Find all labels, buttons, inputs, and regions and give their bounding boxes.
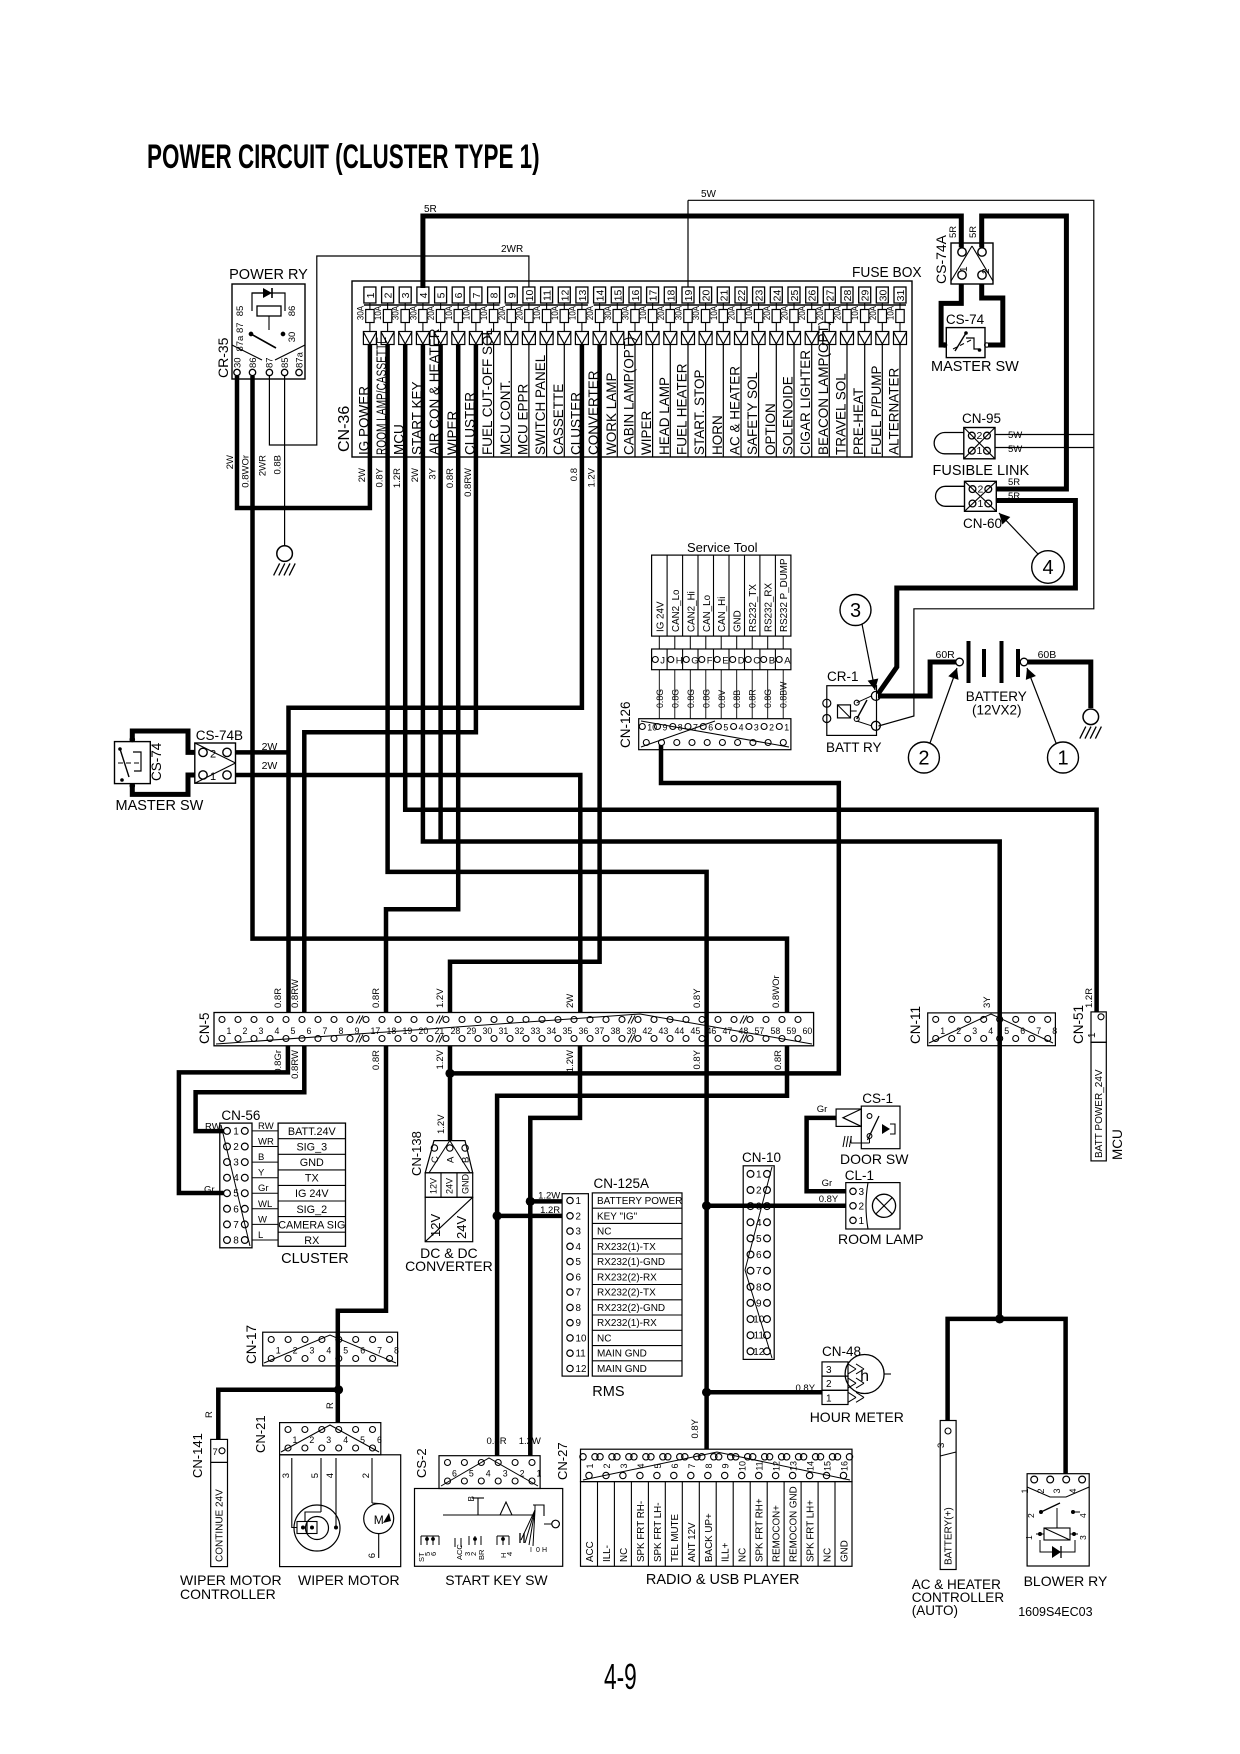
svg-text:BATT.24V: BATT.24V [288,1126,337,1138]
svg-text:10A: 10A [743,306,754,320]
svg-text:h: h [860,1368,869,1385]
svg-text:H: H [676,656,683,667]
svg-text:MAIN GND: MAIN GND [597,1364,647,1375]
svg-text:CS-1: CS-1 [862,1091,893,1106]
svg-text:RX232(1)-GND: RX232(1)-GND [597,1257,665,1268]
svg-text:3: 3 [936,1443,947,1448]
svg-text:1: 1 [940,1026,945,1036]
svg-text:NC: NC [597,1333,611,1344]
svg-text:4: 4 [505,1552,514,1556]
svg-text:2W: 2W [357,468,368,482]
svg-text:30A: 30A [690,306,701,320]
svg-text:13: 13 [789,1461,799,1471]
svg-text:9: 9 [721,1463,731,1468]
svg-text:8: 8 [704,1463,714,1468]
svg-text:4: 4 [1078,1513,1088,1518]
svg-text:1: 1 [585,1463,595,1468]
svg-text:ALTERNATER: ALTERNATER [887,367,902,455]
svg-text:7: 7 [756,1266,762,1277]
svg-text:BACK UP+: BACK UP+ [704,1513,715,1562]
svg-text:KEY "IG": KEY "IG" [597,1211,637,1222]
svg-text:TRAVEL SOL: TRAVEL SOL [834,373,849,455]
svg-text:1: 1 [210,771,216,783]
svg-text:0.8BW: 0.8BW [779,681,789,708]
svg-text:1.2V: 1.2V [436,1114,447,1134]
svg-text:42: 42 [643,1026,653,1036]
svg-text:0.8R: 0.8R [445,468,456,488]
svg-text:9: 9 [663,723,668,733]
svg-text:17: 17 [371,1026,381,1036]
svg-text:2: 2 [981,268,992,274]
svg-text:86: 86 [287,306,298,317]
svg-text:30A: 30A [355,306,366,320]
svg-text:87: 87 [265,357,276,368]
svg-text:0.8WOr: 0.8WOr [241,455,252,488]
svg-text:34: 34 [547,1026,557,1036]
svg-text:CN-5: CN-5 [197,1012,212,1044]
svg-text:RX232(1)-RX: RX232(1)-RX [597,1318,657,1329]
svg-text:CAMERA SIG: CAMERA SIG [278,1219,345,1231]
svg-text:1: 1 [784,723,789,733]
svg-text:2W: 2W [225,455,236,469]
svg-text:11: 11 [576,1349,586,1360]
svg-text:0.8Y: 0.8Y [692,988,703,1008]
svg-text:0.8: 0.8 [569,468,580,481]
svg-text:NC: NC [823,1548,834,1562]
svg-text:20A: 20A [779,306,790,320]
svg-text:3: 3 [310,1346,315,1356]
svg-text:RX232(2)-TX: RX232(2)-TX [597,1287,656,1298]
svg-text:5R: 5R [1008,477,1020,488]
svg-text:14: 14 [595,290,607,302]
svg-text:2WR: 2WR [257,455,268,476]
svg-text:3: 3 [972,1026,977,1036]
svg-text:CN-95: CN-95 [962,411,1001,426]
svg-text:33: 33 [531,1026,541,1036]
svg-text:21: 21 [718,290,730,302]
svg-text:3: 3 [326,1435,331,1445]
svg-text:HOUR METER: HOUR METER [810,1409,904,1425]
svg-text:CL-1: CL-1 [845,1168,874,1183]
svg-text:1: 1 [576,1196,581,1207]
svg-text:MCU: MCU [1110,1129,1125,1160]
svg-text:SOLENOIDE: SOLENOIDE [781,376,796,455]
svg-text:Service Tool: Service Tool [687,540,758,555]
svg-text:15: 15 [612,290,624,302]
svg-text:SPK FRT LH+: SPK FRT LH+ [806,1500,817,1562]
svg-text:4: 4 [275,1026,280,1036]
svg-text:Gr: Gr [822,1178,833,1189]
svg-text:10: 10 [524,290,536,302]
svg-text:0.8G: 0.8G [670,689,680,708]
svg-text:2: 2 [233,1142,239,1153]
svg-text:1: 1 [276,1346,281,1356]
svg-text:10A: 10A [531,306,542,320]
svg-text:6: 6 [233,1204,239,1215]
svg-text:J: J [660,656,665,667]
svg-text:CONVERTER: CONVERTER [405,1258,493,1274]
svg-text:5W: 5W [701,189,717,200]
svg-text:RX232(2)-GND: RX232(2)-GND [597,1303,665,1314]
svg-text:4: 4 [343,1435,348,1445]
svg-text:6: 6 [708,723,713,733]
svg-text:1: 1 [1087,1032,1098,1038]
svg-text:2: 2 [1026,1513,1036,1518]
svg-text:0: 0 [536,1547,540,1554]
svg-text:CLUSTER: CLUSTER [281,1251,349,1267]
svg-text:GND: GND [461,1174,471,1195]
svg-text:NC: NC [738,1548,749,1562]
svg-text:2W: 2W [565,994,576,1008]
svg-text:8: 8 [576,1303,582,1314]
svg-text:5: 5 [469,1469,474,1479]
svg-text:12: 12 [559,290,571,302]
svg-text:DOOR SW: DOOR SW [840,1151,909,1167]
svg-text:CIGAR LIGHTER: CIGAR LIGHTER [798,350,813,455]
svg-text:5: 5 [343,1346,348,1356]
svg-text:10A: 10A [478,306,489,320]
svg-text:0.8V: 0.8V [717,690,727,708]
svg-text:E: E [722,656,728,667]
svg-text:5: 5 [576,1257,582,1268]
svg-text:1.2R: 1.2R [1084,988,1095,1008]
svg-text:CS-2: CS-2 [414,1448,429,1478]
svg-text:B: B [467,1496,476,1501]
svg-text:START KEY SW: START KEY SW [445,1572,548,1588]
svg-text:6: 6 [307,1026,312,1036]
svg-text:ROOM LAMP: ROOM LAMP [838,1231,924,1247]
svg-text:11: 11 [755,1461,765,1470]
svg-text:CS-74A: CS-74A [933,234,949,284]
svg-text:10: 10 [576,1333,587,1344]
svg-text:2W: 2W [410,468,421,482]
svg-text:ACC: ACC [585,1541,596,1562]
svg-text:1.2V: 1.2V [435,1049,446,1069]
svg-text:58: 58 [771,1026,781,1036]
svg-text:22: 22 [736,290,748,302]
svg-text:BATTERY POWER: BATTERY POWER [597,1196,682,1207]
svg-text:32: 32 [515,1026,525,1036]
svg-text:FUEL P/PUMP: FUEL P/PUMP [869,365,884,455]
svg-text:1: 1 [1020,1488,1030,1493]
svg-text:38: 38 [611,1026,621,1036]
svg-text:30: 30 [287,332,298,343]
svg-text:WL: WL [258,1199,272,1210]
svg-text:10A: 10A [885,306,896,320]
svg-text:20A: 20A [761,306,772,320]
svg-text:OPTION: OPTION [763,403,778,455]
svg-text:Gr: Gr [258,1183,269,1194]
svg-text:B: B [258,1152,264,1163]
svg-text:37: 37 [595,1026,605,1036]
svg-text:10A: 10A [637,306,648,320]
svg-text:60B: 60B [1038,649,1057,661]
svg-text:2: 2 [826,1379,832,1390]
svg-text:CN-36: CN-36 [336,406,353,452]
svg-text:20A: 20A [726,306,737,320]
svg-text:2: 2 [210,749,216,761]
svg-text:Gr: Gr [817,1104,828,1115]
svg-text:18: 18 [665,290,677,302]
svg-text:10A: 10A [372,306,383,320]
svg-text:1: 1 [1024,1535,1034,1540]
svg-text:1: 1 [859,1216,865,1227]
svg-text:SIG_2: SIG_2 [296,1204,327,1216]
svg-text:30A: 30A [408,306,419,320]
svg-text:Y: Y [258,1168,265,1179]
svg-text:CN-126: CN-126 [618,701,633,748]
svg-text:3: 3 [826,1365,832,1376]
svg-text:3Y: 3Y [428,467,439,479]
svg-text:3: 3 [859,1187,865,1198]
svg-text:20A: 20A [496,306,507,320]
svg-text:7: 7 [471,292,483,298]
svg-text:MASTER SW: MASTER SW [931,359,1019,375]
svg-text:24V: 24V [454,1216,469,1239]
svg-text:23: 23 [754,290,766,302]
svg-text:0.8R: 0.8R [273,988,284,1008]
svg-text:8: 8 [233,1236,239,1247]
svg-text:HEAD LAMP: HEAD LAMP [657,377,672,455]
svg-text:3: 3 [1078,1535,1088,1540]
svg-text:3Y: 3Y [982,996,993,1008]
svg-text:85: 85 [280,357,291,368]
svg-text:3: 3 [850,600,861,622]
svg-text:BLOWER RY: BLOWER RY [1024,1573,1108,1589]
svg-text:29: 29 [860,290,872,302]
svg-text:CN-138: CN-138 [409,1131,424,1176]
svg-text:0.8Y: 0.8Y [375,467,386,487]
svg-text:5R: 5R [948,226,959,238]
svg-text:D: D [738,656,745,667]
svg-text:2: 2 [918,748,929,770]
svg-text:CAN_Lo: CAN_Lo [702,594,713,632]
svg-text:ILL-: ILL- [602,1545,613,1562]
svg-text:6: 6 [670,1463,680,1468]
svg-text:2WR: 2WR [501,244,523,255]
svg-text:A: A [445,1156,456,1163]
svg-text:0.8G: 0.8G [763,689,773,708]
svg-text:CR-1: CR-1 [827,669,859,684]
svg-text:30: 30 [877,290,889,302]
svg-text:WORK LAMP: WORK LAMP [604,372,619,455]
svg-text:IG 24V: IG 24V [295,1188,329,1200]
svg-text:CN-17: CN-17 [244,1325,259,1364]
svg-text:4: 4 [325,1473,336,1478]
svg-text:R: R [204,1411,215,1418]
svg-text:0.8Y: 0.8Y [692,1049,703,1069]
svg-text:CN-141: CN-141 [190,1433,205,1478]
svg-text:0.8Gr: 0.8Gr [273,1050,284,1074]
svg-text:0.8R: 0.8R [487,1436,507,1447]
svg-text:12: 12 [753,1347,765,1358]
svg-text:0.8B: 0.8B [732,690,742,708]
svg-text:30A: 30A [390,306,401,320]
svg-text:0.8R: 0.8R [371,988,382,1008]
svg-text:3: 3 [233,1158,239,1169]
svg-text:1.2R: 1.2R [540,1205,560,1216]
svg-text:8: 8 [489,292,501,298]
svg-text:CR-35: CR-35 [215,337,231,378]
svg-text:ANT 12V: ANT 12V [687,1522,698,1562]
svg-text:30A: 30A [673,306,684,320]
svg-text:(AUTO): (AUTO) [912,1603,958,1618]
svg-text:0.8G: 0.8G [701,689,711,708]
svg-text:12V: 12V [428,1214,443,1237]
svg-text:0.8Y: 0.8Y [796,1383,816,1394]
svg-text:BATT POWER_24V: BATT POWER_24V [1094,1069,1105,1158]
svg-text:1: 1 [227,1026,232,1036]
svg-text:CASSETTE: CASSETTE [551,384,566,455]
svg-text:C: C [430,1156,441,1163]
svg-text:20A: 20A [425,306,436,320]
svg-text:5: 5 [1004,1026,1009,1036]
svg-text:28: 28 [842,290,854,302]
svg-text:4-9: 4-9 [604,1658,637,1697]
svg-text:TEL MUTE: TEL MUTE [670,1513,681,1562]
svg-text:0.8Y: 0.8Y [690,1418,701,1438]
svg-text:5R: 5R [968,226,979,238]
svg-text:4: 4 [576,1242,582,1253]
svg-text:2: 2 [859,1201,865,1212]
svg-text:15: 15 [823,1461,833,1471]
svg-text:WIPER MOTOR: WIPER MOTOR [298,1572,400,1588]
svg-text:WIPER: WIPER [639,410,654,455]
svg-text:3: 3 [400,292,412,298]
svg-text:CAN_Hi: CAN_Hi [717,597,728,632]
svg-text:1.2W: 1.2W [538,1191,560,1202]
svg-text:RS232 P_DUMP: RS232 P_DUMP [779,558,790,632]
svg-text:0.8Y: 0.8Y [819,1194,839,1205]
svg-text:H: H [542,1547,547,1554]
svg-text:MASTER SW: MASTER SW [116,798,204,814]
svg-text:B: B [769,656,775,667]
svg-text:25: 25 [789,290,801,302]
svg-text:7: 7 [233,1220,239,1231]
svg-text:CONTROLLER: CONTROLLER [180,1586,276,1602]
svg-text:HORN: HORN [710,415,725,455]
svg-text:RW: RW [205,1122,221,1133]
svg-text:16: 16 [840,1461,850,1471]
svg-text:12: 12 [576,1364,587,1375]
svg-text:43: 43 [659,1026,669,1036]
svg-text:6: 6 [453,292,465,298]
svg-text:2: 2 [756,1186,762,1197]
svg-text:ILL+: ILL+ [721,1542,732,1562]
svg-text:0.8G: 0.8G [655,689,665,708]
svg-text:0.8RW: 0.8RW [463,468,474,497]
svg-text:CS-74: CS-74 [946,312,985,327]
svg-text:20A: 20A [514,306,525,320]
svg-text:CS-74B: CS-74B [196,728,243,743]
svg-text:MCU EPPR: MCU EPPR [515,383,530,455]
svg-text:R: R [325,1402,336,1409]
svg-text:7: 7 [1036,1026,1041,1036]
svg-text:NC: NC [597,1226,611,1237]
svg-text:SPK FRT LH-: SPK FRT LH- [653,1502,664,1562]
svg-text:POWER RY: POWER RY [229,267,308,283]
svg-text:CABIN LAMP(OPT): CABIN LAMP(OPT) [622,336,637,455]
svg-text:M: M [374,1513,384,1527]
svg-text:3: 3 [503,1469,508,1479]
svg-text:CN-125A: CN-125A [594,1176,650,1191]
svg-text:2: 2 [243,1026,248,1036]
svg-text:6: 6 [360,1346,365,1356]
svg-text:POWER CIRCUIT (CLUSTER TYPE 1): POWER CIRCUIT (CLUSTER TYPE 1) [147,138,540,176]
svg-text:24V: 24V [445,1178,455,1194]
svg-text:NC: NC [619,1548,630,1562]
svg-text:5: 5 [723,723,728,733]
svg-text:B: B [461,1157,472,1163]
svg-text:RS232_TX: RS232_TX [748,584,759,632]
svg-text:29: 29 [467,1026,477,1036]
svg-text:20A: 20A [832,306,843,320]
svg-text:5R: 5R [424,204,437,215]
svg-text:1: 1 [537,1469,542,1479]
svg-text:1.2W: 1.2W [565,1050,576,1072]
svg-text:20A: 20A [655,306,666,320]
svg-text:GND: GND [840,1540,851,1562]
svg-text:3: 3 [281,1473,292,1478]
svg-text:CN-11: CN-11 [908,1006,923,1044]
svg-text:10A: 10A [461,306,472,320]
svg-text:GND: GND [733,610,744,632]
svg-text:1: 1 [826,1393,832,1404]
svg-text:27: 27 [824,290,836,302]
svg-text:2: 2 [956,1026,961,1036]
svg-text:16: 16 [630,290,642,302]
svg-text:8: 8 [339,1026,344,1036]
svg-text:44: 44 [675,1026,685,1036]
svg-text:WR: WR [258,1137,274,1148]
svg-text:60: 60 [803,1026,813,1036]
svg-text:19: 19 [683,290,695,302]
svg-text:1: 1 [233,1126,239,1137]
svg-text:W: W [258,1214,267,1225]
svg-text:47: 47 [723,1026,733,1036]
svg-text:SAFETY SOL: SAFETY SOL [745,371,760,455]
svg-text:5: 5 [436,292,448,298]
svg-text:6: 6 [756,1250,762,1261]
svg-text:6: 6 [429,1552,438,1556]
svg-text:1.2W: 1.2W [519,1436,541,1447]
svg-text:36: 36 [579,1026,589,1036]
svg-text:10A: 10A [443,306,454,320]
svg-text:MCU CONT.: MCU CONT. [498,380,513,455]
svg-text:6: 6 [367,1553,378,1558]
svg-text:60R: 60R [936,649,956,661]
svg-text:10A: 10A [708,306,719,320]
svg-text:6: 6 [576,1272,582,1283]
svg-text:5: 5 [756,1234,762,1245]
svg-text:START. STOP: START. STOP [692,369,707,455]
svg-text:CN-27: CN-27 [555,1442,570,1480]
svg-text:11: 11 [754,1331,765,1342]
svg-text:3: 3 [576,1227,582,1238]
svg-text:CN-51: CN-51 [1071,1005,1086,1044]
svg-text:1.2V: 1.2V [587,467,598,487]
svg-text:8: 8 [756,1282,762,1293]
svg-text:5: 5 [310,1473,321,1478]
svg-text:87a: 87a [294,351,305,368]
svg-text:0.8R: 0.8R [748,689,758,708]
svg-text:2: 2 [602,1463,612,1468]
svg-text:ACC: ACC [455,1544,464,1560]
svg-text:26: 26 [807,290,819,302]
svg-text:RADIO & USB PLAYER: RADIO & USB PLAYER [646,1572,800,1588]
svg-text:8: 8 [394,1346,399,1356]
svg-text:4: 4 [739,723,744,733]
